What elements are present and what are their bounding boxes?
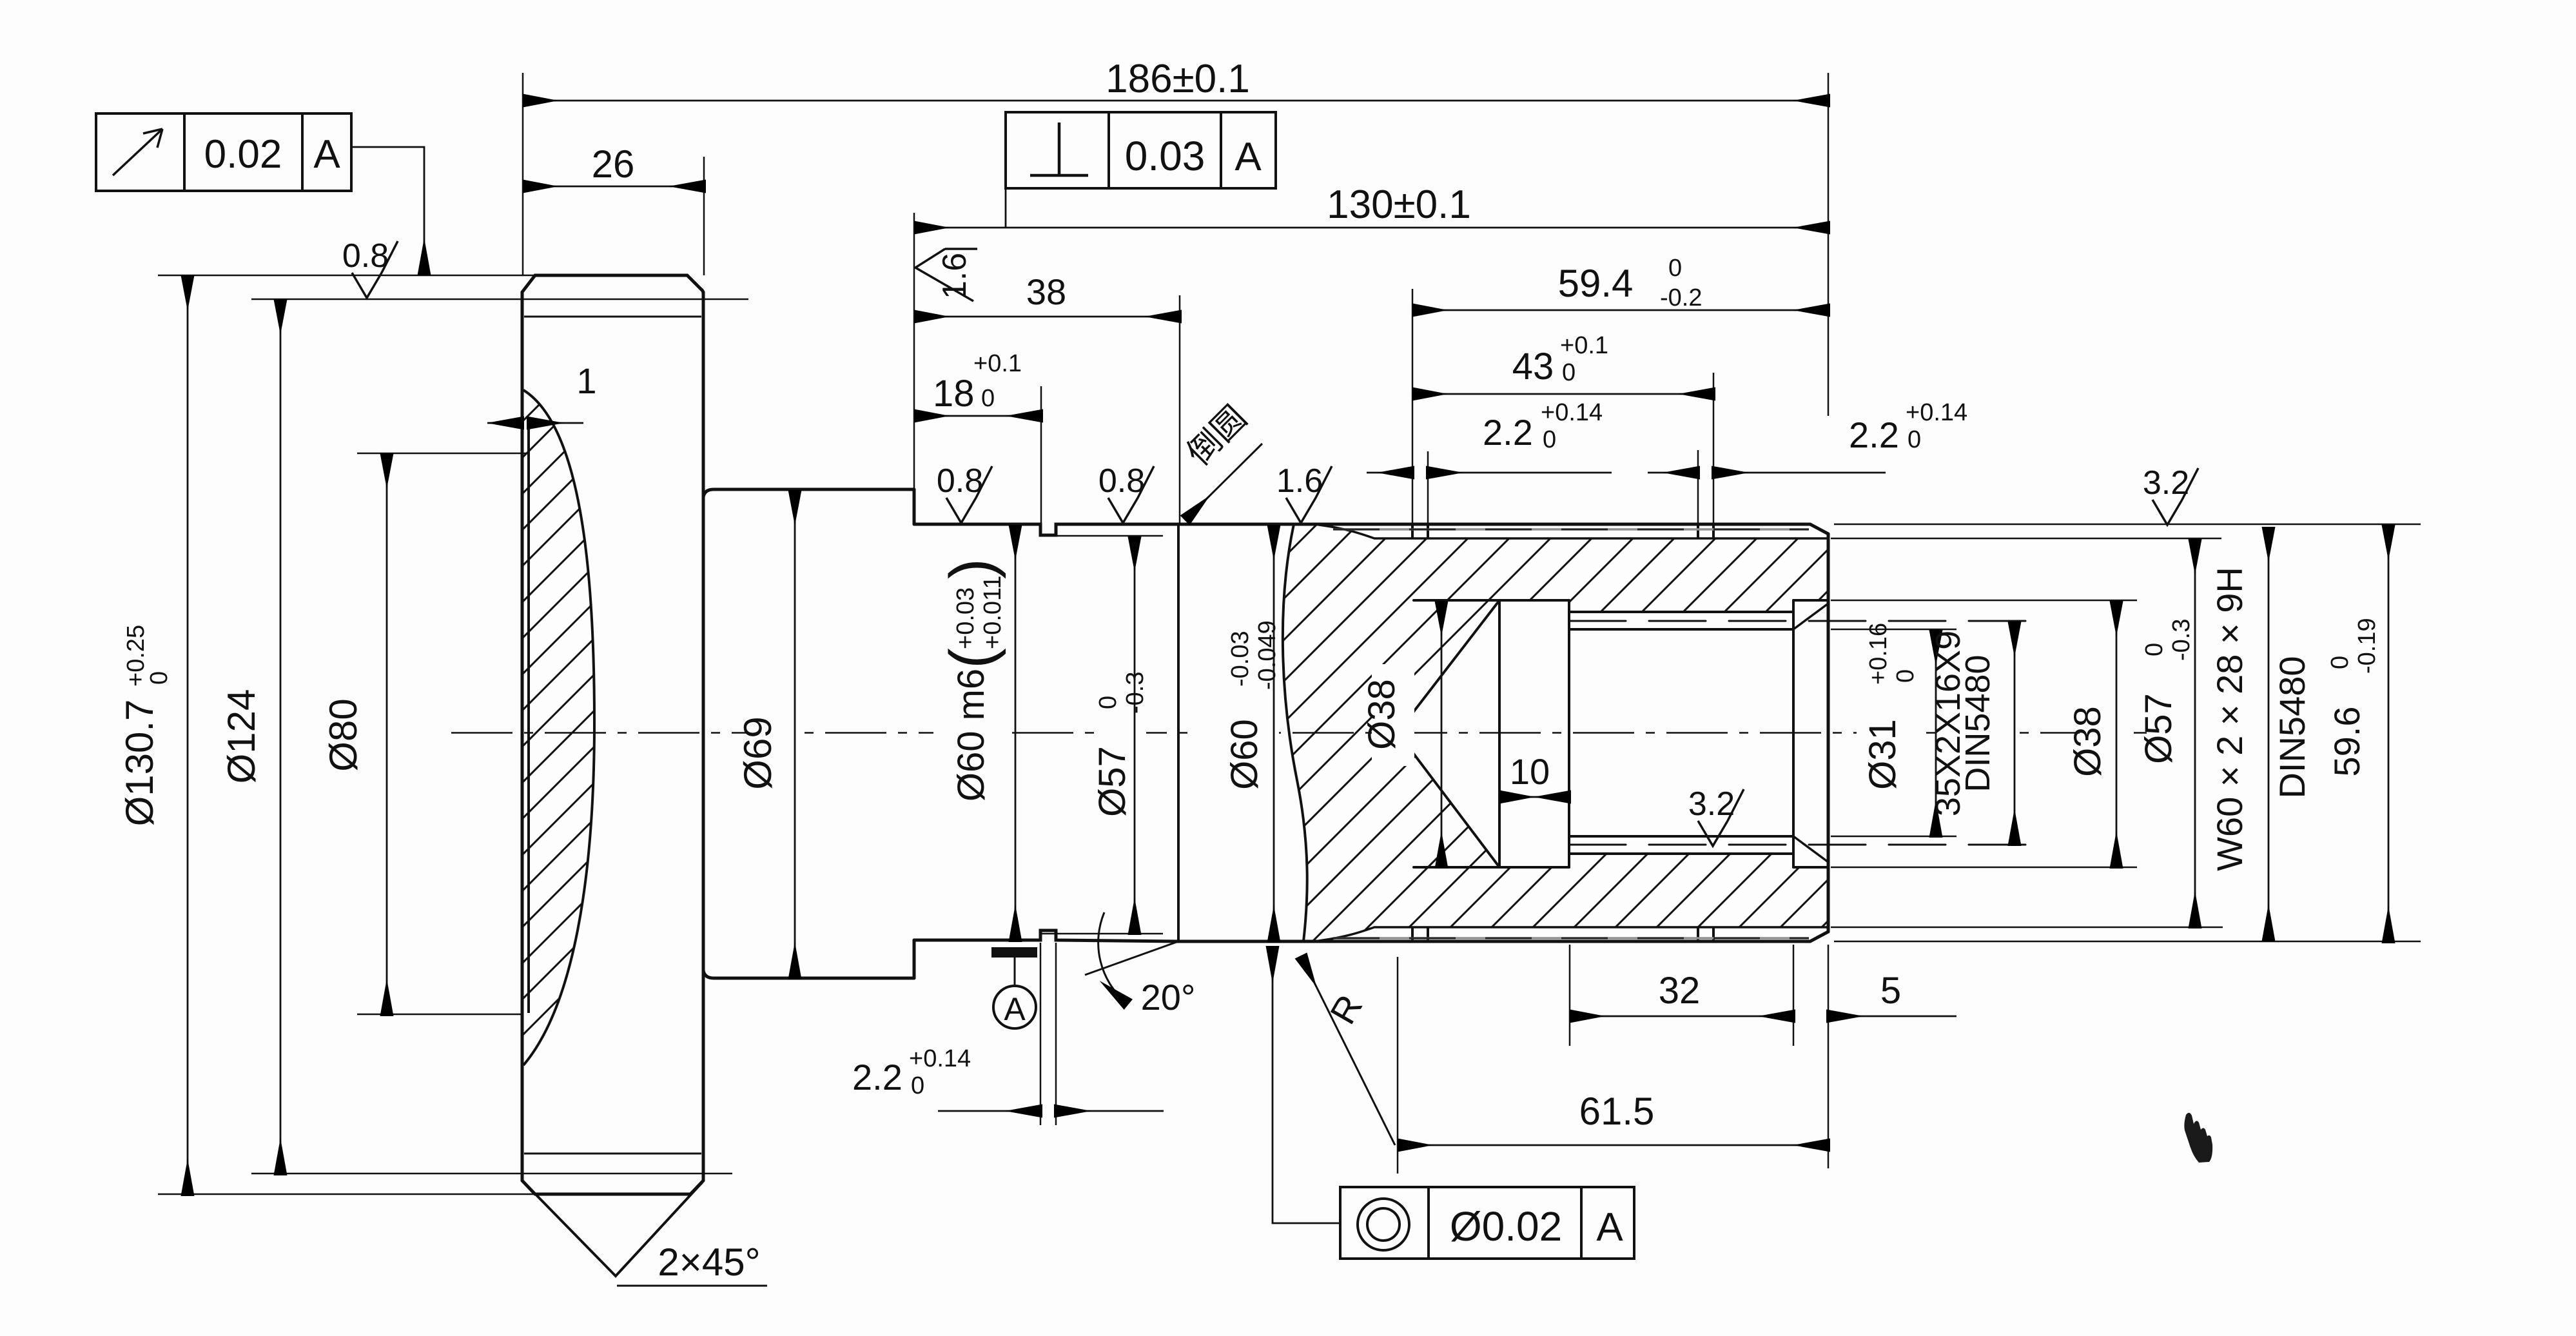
screenshot hand cursor artifact	[2184, 1113, 2212, 1163]
bore bottom wall	[1498, 600, 1501, 867]
ext end face down	[1828, 945, 1830, 1168]
svg-text:32: 32	[1659, 970, 1701, 1012]
chinese fillet note leader	[1185, 444, 1262, 520]
dim W60x2x28x9H	[2268, 527, 2270, 939]
ext flange right face up (26)	[703, 157, 705, 275]
external spline pitch lines (grey)	[1333, 529, 1809, 938]
ext D38 right bottom	[1831, 867, 2137, 869]
svg-text:0.03: 0.03	[1125, 133, 1205, 179]
svg-text:+0.14: +0.14	[1541, 399, 1603, 426]
dim D60 m6	[1015, 525, 1017, 940]
left hatch	[509, 380, 612, 1077]
svg-text:20°: 20°	[1141, 977, 1196, 1017]
chamfer cone V below flange	[523, 1182, 702, 1276]
svg-text:+0.16: +0.16	[1865, 623, 1892, 685]
svg-text:2.2: 2.2	[1849, 415, 1899, 455]
svg-text:0: 0	[2327, 656, 2354, 669]
svg-text:Ø69: Ø69	[736, 716, 779, 789]
flange bottom face with chamfers	[522, 1181, 703, 1194]
svg-text:26: 26	[592, 142, 635, 186]
ext spline crest right top	[1834, 524, 2421, 526]
ext spline groove2 2658 up	[1713, 373, 1715, 524]
svg-text:+0.011: +0.011	[979, 576, 1006, 649]
svg-text:0: 0	[911, 1072, 924, 1099]
svg-text:3.2: 3.2	[2143, 464, 2189, 502]
svg-text:1: 1	[576, 360, 596, 401]
ext spline groove 2191 up	[1412, 289, 1414, 524]
ext D31 right top	[1831, 629, 1956, 631]
dim 186±0.1	[523, 100, 1828, 102]
dim D60-0.03-0.049	[1273, 525, 1275, 941]
svg-text:2.2: 2.2	[1483, 412, 1533, 453]
surface 1.6 shoulder rotated	[915, 248, 977, 301]
surface 3.2 spline right	[2152, 468, 2198, 525]
runout frame 0.02 A	[96, 113, 351, 191]
dim 5	[1828, 1016, 1956, 1017]
R radius leader	[1301, 956, 1395, 1145]
svg-text:0.02: 0.02	[204, 132, 282, 177]
svg-text:0: 0	[1095, 696, 1122, 709]
svg-text:DIN5480: DIN5480	[2272, 656, 2312, 798]
dim D38 bore	[1441, 601, 1443, 867]
right section hatch	[1264, 516, 1831, 948]
internal spline ring left face	[1568, 600, 1570, 867]
dim 32	[1570, 1016, 1793, 1017]
centerline	[451, 732, 2147, 734]
dim 18	[914, 415, 1041, 417]
spline pitch line dark dashes	[1333, 529, 1809, 938]
ext spline crest right bottom	[1834, 941, 2421, 943]
surface 0.8 D60m6	[946, 466, 992, 523]
dim 1 recess	[487, 422, 522, 424]
svg-text:0: 0	[146, 671, 173, 685]
svg-text:Ø38: Ø38	[1361, 679, 1403, 750]
D60 m6 top edge with groove notch	[914, 524, 1178, 535]
ext 61.5 left	[1397, 957, 1399, 1174]
svg-text:0: 0	[981, 385, 995, 412]
ext D31 right bottom	[1831, 836, 1956, 838]
dim 59.4	[1412, 309, 1828, 311]
svg-text:+0.14: +0.14	[1906, 399, 1967, 426]
svg-text:-0.03: -0.03	[1227, 631, 1254, 687]
surface 3.2 internal spline	[1698, 789, 1744, 846]
svg-text:-0.3: -0.3	[1122, 672, 1149, 714]
flange right face	[702, 292, 705, 1181]
flange top face with chamfers	[522, 275, 703, 294]
svg-text:1.6: 1.6	[1276, 462, 1323, 500]
datum A symbol	[991, 947, 1037, 958]
ext 32 dim left	[1569, 945, 1571, 1046]
text masks	[749, 533, 2386, 907]
svg-text:0.8: 0.8	[342, 237, 389, 275]
ext shoulder 1418 up	[913, 213, 915, 489]
concentricity frame D0.02 A	[1340, 1187, 1634, 1259]
dim 2.2 groove bottom	[938, 1110, 1040, 1112]
dim D124	[280, 299, 282, 1174]
svg-text:A: A	[1234, 135, 1262, 179]
spline root section boundary bottom (runout ramp)	[1319, 927, 1828, 941]
dim 38	[914, 316, 1180, 318]
shaft D69 top edge	[703, 489, 914, 497]
concentricity frame leader	[1273, 948, 1340, 1223]
ext spline root right bottom	[1831, 927, 2223, 928]
internal spline pitch dashed lines	[1569, 621, 2034, 845]
svg-text:59.4: 59.4	[1558, 262, 1634, 305]
right section bottom edge (spline crest) with end chamfer	[1178, 932, 1828, 941]
svg-text:1.6: 1.6	[936, 253, 973, 299]
svg-text:2.2: 2.2	[852, 1057, 903, 1097]
D60 m6 bottom edge with groove notch	[914, 930, 1178, 941]
right broken-out section wavy line	[1283, 524, 1307, 941]
dim 43	[1412, 393, 1713, 395]
20 degree angle dim	[1085, 941, 1178, 975]
spline relief groove ticks	[1412, 524, 1713, 941]
svg-text:186±0.1: 186±0.1	[1106, 57, 1250, 101]
dim D69	[794, 490, 796, 977]
bore D38 top line	[1414, 599, 1569, 602]
ext D57 groove bottom	[1042, 933, 1163, 935]
ext spline groove 2215 up	[1427, 451, 1429, 524]
internal spline ring right face	[1792, 600, 1795, 867]
svg-text:-0.2: -0.2	[1660, 284, 1702, 311]
ext D57 groove top	[1042, 535, 1163, 537]
svg-text:+0.1: +0.1	[973, 350, 1022, 377]
dim D31	[1935, 630, 1937, 836]
svg-text:Ø80: Ø80	[322, 698, 365, 771]
left broken-out section wavy line	[523, 390, 594, 1065]
dim 2.2 groove 2	[1648, 472, 1698, 474]
svg-text:0: 0	[1543, 426, 1556, 453]
svg-text:+0.03: +0.03	[952, 587, 979, 649]
svg-text:0.8: 0.8	[1098, 462, 1145, 500]
ext flange left face up	[522, 73, 524, 275]
dim 130±0.1	[914, 227, 1828, 229]
svg-text:-0.19: -0.19	[2354, 618, 2381, 674]
flange left face	[521, 292, 524, 1181]
svg-text:0: 0	[1892, 669, 1919, 683]
flange inner chamfer back lines	[524, 317, 701, 1154]
svg-text:A: A	[313, 132, 340, 177]
ext spline groove2 2634 up	[1697, 450, 1699, 524]
dim 2.2 groove 1	[1367, 472, 1412, 474]
dim D80	[386, 453, 388, 1014]
svg-text:Ø38: Ø38	[2067, 706, 2109, 777]
svg-text:DIN5480: DIN5480	[1958, 654, 1997, 792]
ext D130.7 bottom	[158, 1194, 535, 1195]
svg-text:0: 0	[1908, 426, 1921, 453]
bore D38 at end	[1793, 600, 1828, 867]
ext spline root right top	[1831, 538, 2223, 540]
svg-text:10: 10	[1510, 751, 1550, 792]
svg-text:Ø57: Ø57	[2138, 693, 2180, 764]
spline root section boundary top (runout ramp)	[1319, 525, 1828, 538]
svg-text:0.8: 0.8	[937, 462, 983, 500]
svg-text:+0.14: +0.14	[909, 1045, 971, 1072]
svg-text:A: A	[1004, 991, 1026, 1027]
shaft end face	[1827, 534, 1830, 932]
ext D38 right top	[1831, 600, 2137, 602]
ext D80 bottom	[357, 1014, 523, 1016]
dim 10	[1499, 796, 1569, 798]
svg-text:43: 43	[1512, 346, 1554, 388]
svg-text:61.5: 61.5	[1579, 1090, 1655, 1133]
svg-text:Ø60: Ø60	[1224, 719, 1265, 790]
ext D124 top	[251, 299, 748, 300]
surface 1.6 spline shaft	[1286, 466, 1332, 523]
svg-text:3.2: 3.2	[1688, 785, 1735, 823]
svg-text:Ø57: Ø57	[1091, 746, 1133, 817]
svg-text:-0.049: -0.049	[1254, 620, 1281, 690]
svg-text:18: 18	[933, 373, 975, 415]
step line end of D60 m6	[1177, 524, 1180, 941]
svg-text:Ø124: Ø124	[220, 689, 263, 784]
perpendicularity frame 0.03 A	[1006, 112, 1276, 188]
2x45 leader underline	[617, 1285, 767, 1287]
ext D124 bottom	[251, 1173, 732, 1175]
svg-text:(: (	[937, 648, 1006, 669]
surface 0.8 flange	[352, 241, 398, 298]
dim 59.6-0.19	[2388, 525, 2390, 941]
svg-text:2×45°: 2×45°	[658, 1241, 760, 1284]
dim int spline 35x2x16x9	[2014, 622, 2016, 844]
svg-text:): )	[937, 558, 1006, 579]
shaft D69 bottom edge	[703, 970, 914, 978]
svg-text:0: 0	[1562, 359, 1576, 386]
ext 32 dim right	[1793, 945, 1795, 1046]
ext D130.7 top	[158, 275, 535, 277]
dim D38 right	[2116, 601, 2118, 867]
svg-text:0: 0	[1668, 255, 1682, 282]
svg-text:5: 5	[1880, 970, 1901, 1012]
svg-text:0: 0	[2141, 643, 2168, 656]
bore bottom cone	[1398, 600, 1499, 867]
flange face recess line (1mm)	[527, 417, 530, 1013]
svg-text:W60 × 2 × 28 × 9H: W60 × 2 × 28 × 9H	[2209, 567, 2250, 871]
internal spline space-root lines (hatch boundary)	[1569, 612, 1793, 854]
bore end chamfers D31 to D38	[1793, 604, 1828, 862]
svg-text:+0.1: +0.1	[1560, 332, 1608, 359]
svg-text:38: 38	[1026, 271, 1066, 312]
svg-text:Ø130.7: Ø130.7	[118, 700, 161, 827]
svg-text:Ø60 m6: Ø60 m6	[950, 669, 992, 801]
svg-text:130±0.1: 130±0.1	[1327, 182, 1471, 227]
ext D80 top	[357, 453, 527, 455]
svg-text:-0.3: -0.3	[2168, 619, 2195, 661]
dim D130.7	[187, 275, 189, 1194]
svg-text:Ø0.02: Ø0.02	[1450, 1203, 1562, 1250]
dim 61.5	[1398, 1144, 1828, 1146]
ext groove left 1614 up (18)	[1040, 386, 1042, 524]
svg-text:Ø31: Ø31	[1862, 719, 1904, 790]
surface 0.8 D60	[1108, 466, 1154, 523]
dim 26	[523, 186, 704, 188]
ext right end face up	[1828, 73, 1830, 416]
shoulder D69 to D60	[913, 489, 916, 978]
svg-text:59.6: 59.6	[2327, 707, 2367, 777]
svg-text:A: A	[1596, 1205, 1623, 1250]
ext groove 1614 down	[1040, 943, 1042, 1125]
right section top edge (spline crest) with end chamfer	[1178, 524, 1828, 534]
ext step 1830 up (38)	[1179, 295, 1181, 524]
runout frame leader	[351, 147, 424, 273]
bore D38 bottom line	[1414, 866, 1569, 869]
perpendicularity frame leader	[1005, 188, 1007, 228]
internal spline D31 bore lines	[1569, 629, 1793, 836]
dim D57-0.3 spline root	[2194, 539, 2196, 927]
ext groove 1638 down	[1055, 943, 1057, 1125]
dim D57-0.3 groove	[1134, 536, 1136, 933]
